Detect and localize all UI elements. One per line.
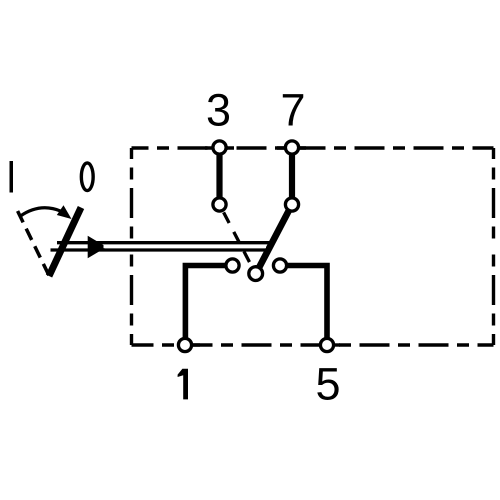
svg-text:5: 5 — [315, 358, 340, 409]
svg-text:3: 3 — [206, 85, 231, 136]
svg-text:7: 7 — [280, 85, 305, 136]
